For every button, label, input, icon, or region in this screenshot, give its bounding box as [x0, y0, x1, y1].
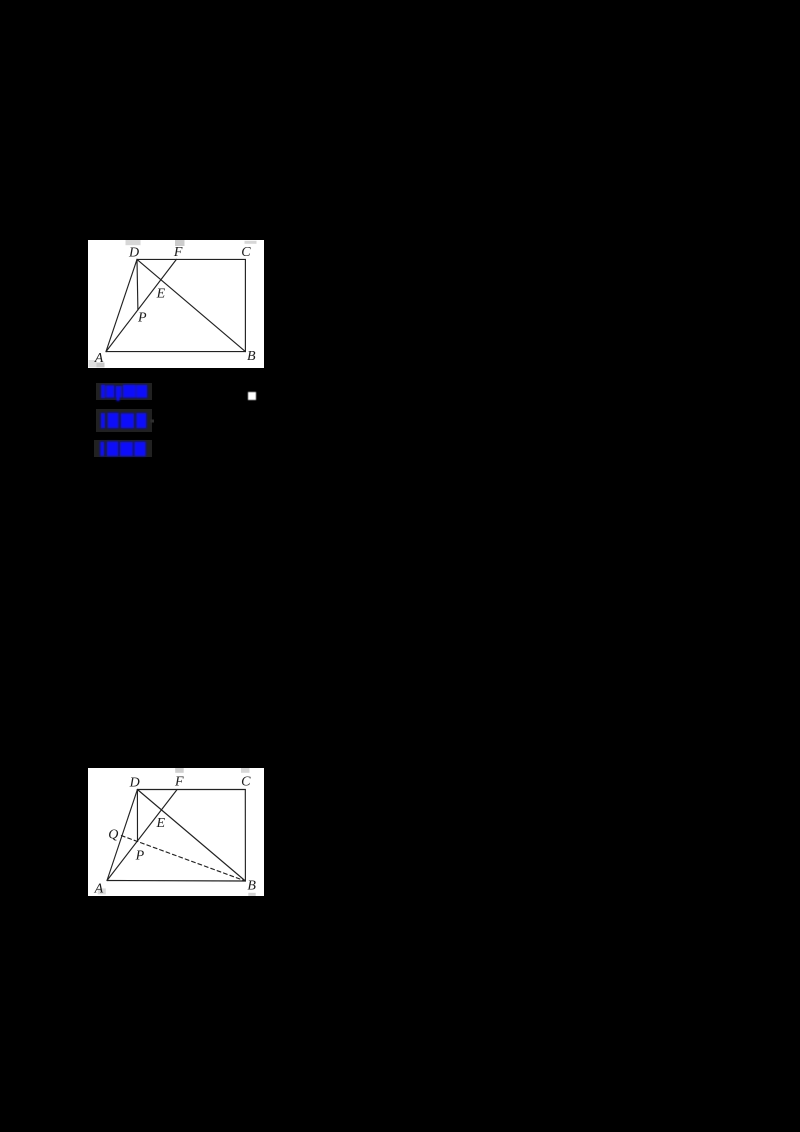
- wire: dashed segment QB: [121, 836, 245, 881]
- wire: diagonal DB: [137, 790, 245, 882]
- svg-text:Q: Q: [108, 827, 118, 842]
- wire: cevian AF: [107, 790, 177, 881]
- wire: diagonal DB: [137, 259, 245, 351]
- svg-text:B: B: [247, 879, 256, 894]
- svg-text:F: F: [174, 774, 184, 789]
- svg-text:P: P: [135, 849, 145, 864]
- svg-text:B: B: [247, 349, 256, 364]
- svg-text:F: F: [173, 245, 183, 260]
- blue glyph blob: char: [107, 441, 119, 456]
- scan artifact above F: [175, 768, 184, 773]
- wire: top edge DC: [137, 258, 245, 260]
- blue glyph blob: right bracket: [136, 413, 146, 428]
- svg-text:D: D: [128, 245, 139, 260]
- blue glyph blob: char: [120, 413, 133, 428]
- blue label row 3: [94, 440, 152, 457]
- svg-text:C: C: [241, 245, 251, 260]
- blue glyph blob: middle char: [115, 386, 121, 398]
- wire: left edge AD: [107, 790, 137, 881]
- blue glyph blob: left bracket: [100, 413, 104, 428]
- wire: segment DP: [136, 790, 138, 841]
- scan artifact below A: [89, 360, 97, 367]
- svg-text:A: A: [94, 881, 104, 896]
- blue glyph blob: char: [107, 413, 118, 429]
- scan artifact above F: [175, 240, 185, 246]
- scan artifact below A: [98, 888, 106, 894]
- scan artifact above D: [126, 240, 141, 245]
- blue label row 2: [96, 409, 153, 432]
- svg-text:P: P: [137, 311, 147, 326]
- white cursor square: [248, 392, 256, 400]
- faint period after bracket: [150, 420, 154, 423]
- blue label row 1: [96, 383, 153, 400]
- wire: top edge DC: [137, 789, 245, 791]
- blue glyph blob: char: [120, 442, 133, 456]
- svg-text:D: D: [129, 776, 140, 791]
- svg-text:A: A: [94, 351, 104, 366]
- svg-text:E: E: [156, 286, 166, 301]
- wire: right edge CB: [244, 259, 246, 351]
- figure box 2 (white panel): [88, 768, 264, 896]
- wire: bottom edge AB: [106, 351, 245, 353]
- blue glyph blob: char + right bracket: [122, 385, 135, 398]
- scan artifact above C: [241, 768, 250, 773]
- wire: right edge CB: [244, 790, 246, 882]
- blue glyph blob: left bracket + char: [101, 385, 105, 399]
- svg-text:E: E: [156, 816, 166, 831]
- scan artifact below B: [248, 893, 255, 896]
- wire: segment DP: [136, 259, 139, 310]
- wire: bottom edge AB: [107, 880, 245, 883]
- wire: cevian AF: [106, 259, 176, 351]
- scan artifact above C: [245, 241, 257, 244]
- figure box 1 (white panel): [88, 240, 264, 368]
- wire: left edge AD: [106, 259, 137, 351]
- blue glyph blob: right bracket: [134, 442, 145, 457]
- svg-text:C: C: [241, 774, 251, 789]
- blue glyph blob: left bracket: [100, 442, 104, 456]
